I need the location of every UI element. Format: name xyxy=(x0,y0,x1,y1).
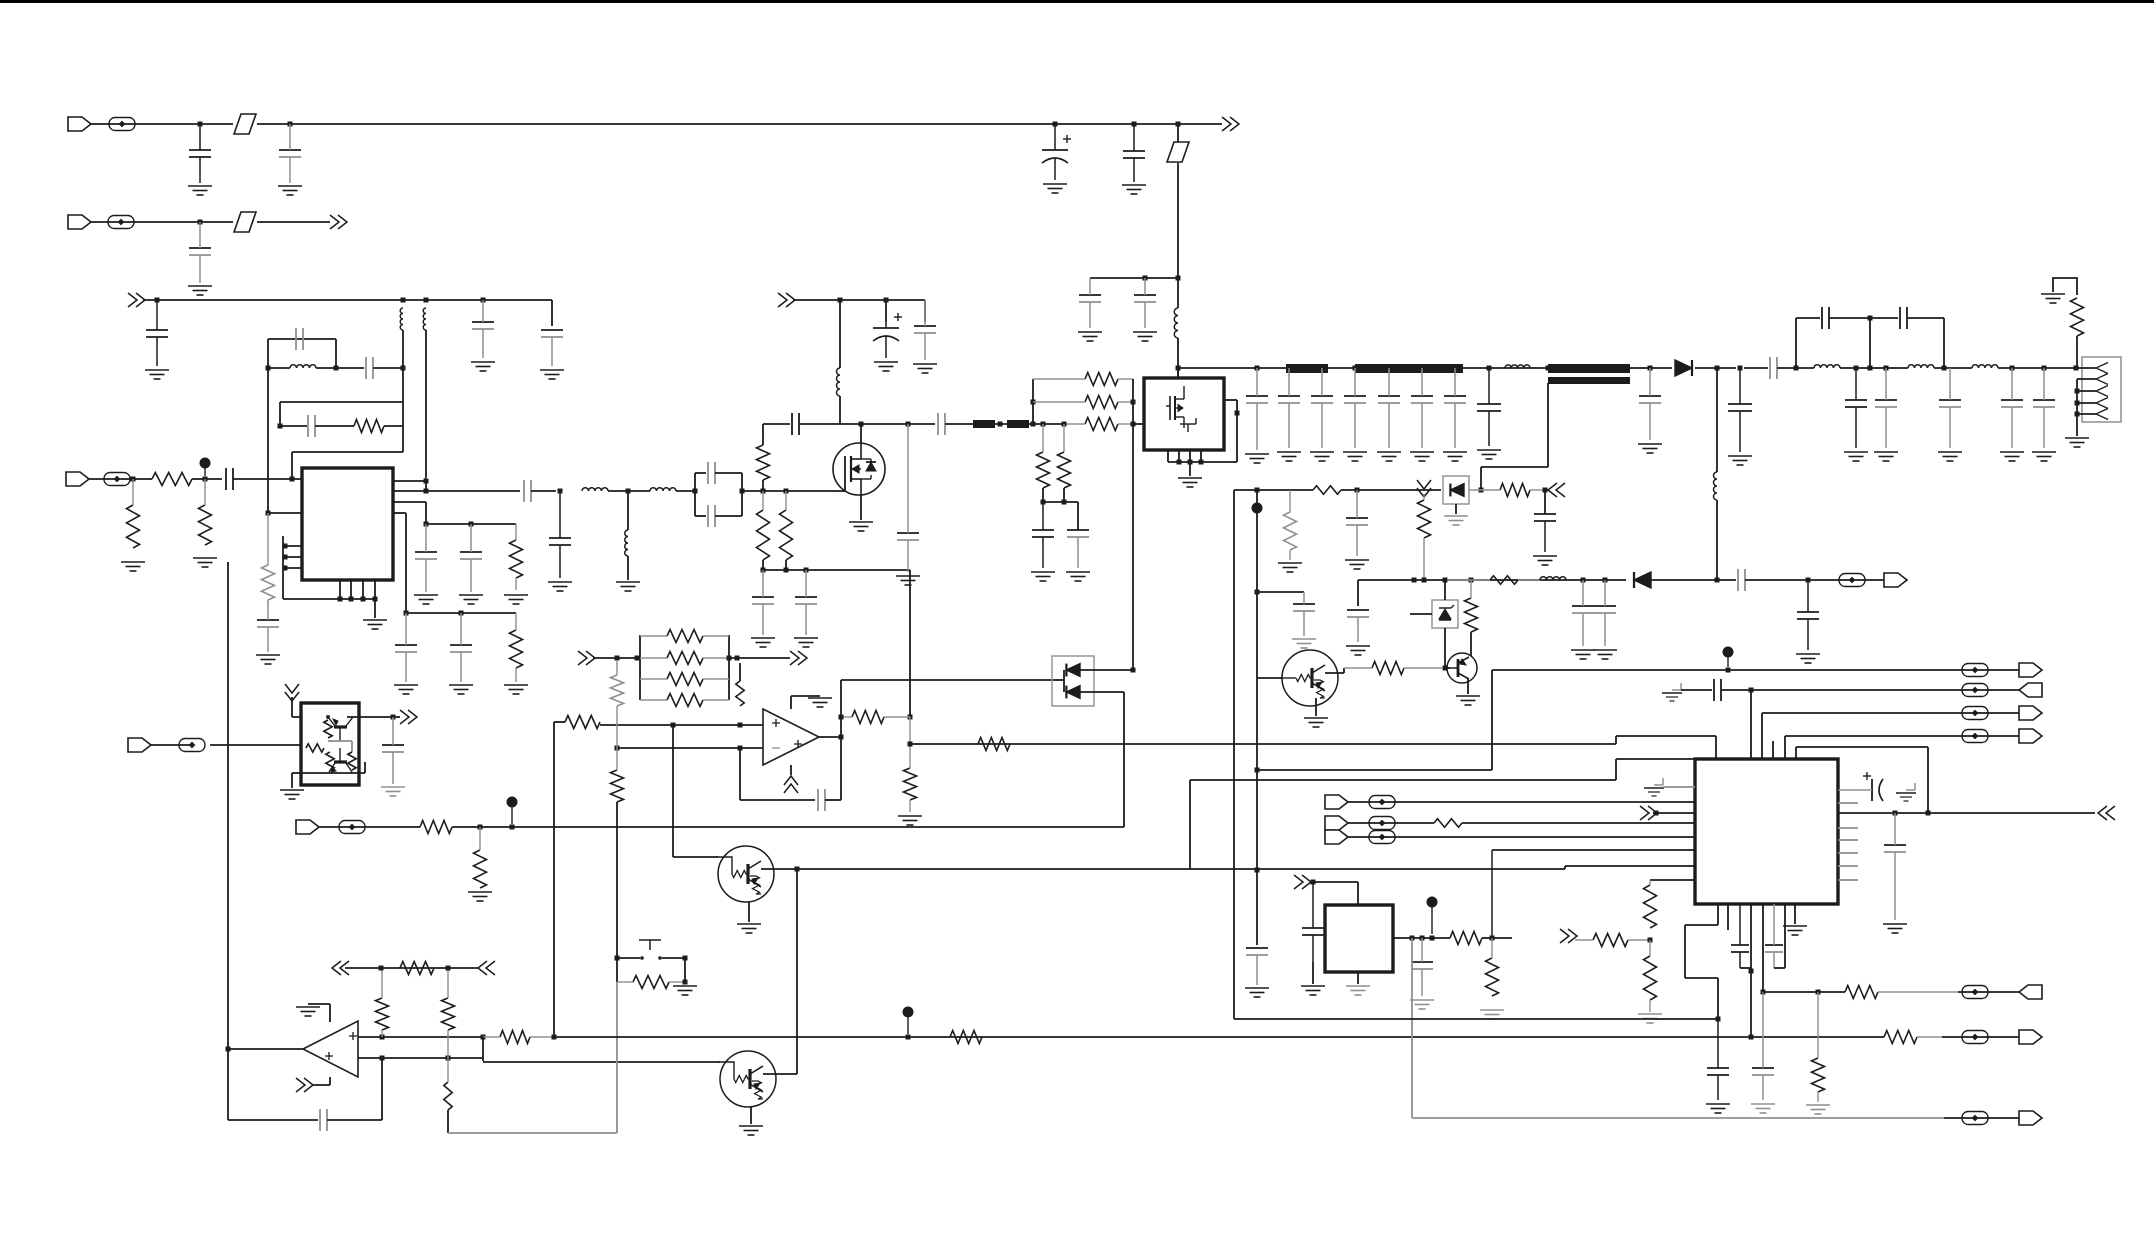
junction xyxy=(998,422,1003,427)
wire u7 out xyxy=(347,716,393,718)
ground xyxy=(1477,450,1501,459)
junction xyxy=(1490,936,1495,941)
capacitor C12 xyxy=(366,357,373,379)
ground xyxy=(2000,452,2024,461)
ground step xyxy=(1662,683,1682,701)
pin stub xyxy=(362,580,364,599)
ground xyxy=(1278,563,1302,572)
transistor inside U2 xyxy=(1166,386,1196,432)
junction xyxy=(391,715,396,720)
capacitor C18 xyxy=(460,524,482,592)
wire xyxy=(1357,882,1359,905)
wire xyxy=(267,339,269,368)
pin out3 xyxy=(393,501,426,503)
resistor R18 xyxy=(1284,490,1297,560)
wire row1118 xyxy=(1412,1117,1944,1119)
wire j8a xyxy=(1348,822,1434,824)
wire box top b xyxy=(715,472,742,474)
wire u7 int2 xyxy=(340,740,352,742)
ground xyxy=(2041,294,2065,303)
wire xyxy=(425,502,427,524)
wire pinb1 xyxy=(1717,904,1719,925)
wire plus row xyxy=(600,724,763,726)
capacitor C25 xyxy=(795,570,817,635)
wire pin813 xyxy=(1653,812,1695,814)
capacitor C33 xyxy=(1246,368,1268,450)
resistor R16 xyxy=(2071,298,2084,336)
wire Q1 collector xyxy=(1325,672,1344,674)
junction xyxy=(1255,868,1260,873)
wire j8b xyxy=(1462,822,1695,824)
capacitor C42 xyxy=(1728,368,1752,452)
plus sign xyxy=(772,719,780,727)
wire top rail right xyxy=(1055,123,1178,125)
wire pin down xyxy=(1715,736,1717,760)
ground xyxy=(1343,452,1367,461)
wire x555 top xyxy=(553,722,555,1037)
capacitor C67 xyxy=(1765,904,1783,968)
ferrite bead FB9b xyxy=(1369,831,1395,844)
wire chev in xyxy=(292,716,326,718)
wire sw l down xyxy=(616,958,618,982)
wire xyxy=(924,300,926,322)
wire x1257 xyxy=(1256,490,1258,662)
ground xyxy=(278,186,302,195)
wire row827 b xyxy=(452,826,1124,828)
pin stub xyxy=(1200,450,1202,462)
wire fb row d xyxy=(1907,317,1944,319)
wire xyxy=(1312,962,1314,984)
transistor Q4 xyxy=(718,1051,776,1107)
wire xyxy=(627,556,629,580)
diode D1 xyxy=(1675,360,1692,376)
junction xyxy=(1884,366,1889,371)
wire top rail xyxy=(290,123,1055,125)
junction xyxy=(1422,578,1427,583)
wire sw right xyxy=(662,957,685,959)
resistor R52 xyxy=(1812,992,1825,1102)
wire sw left xyxy=(617,957,640,959)
ferrite bead FB13 xyxy=(1962,730,1988,743)
wire x1717 down2 xyxy=(1716,500,1718,580)
junction xyxy=(401,298,406,303)
resistor R33 xyxy=(640,673,729,686)
junction xyxy=(380,1056,385,1061)
wire xyxy=(627,491,629,530)
resistor R4 xyxy=(127,479,140,548)
wire d4 left xyxy=(1056,679,1064,681)
connector J9 xyxy=(1325,830,1348,844)
junction xyxy=(1648,938,1653,943)
net arrow in xyxy=(128,293,145,307)
wire gnd stub xyxy=(374,580,376,618)
net arrow out xyxy=(790,651,807,665)
wire pin stub xyxy=(283,567,302,569)
wire U3 pwr h xyxy=(791,695,820,697)
connector J8 xyxy=(1325,816,1348,830)
net blob xyxy=(1427,897,1438,935)
wire gate node xyxy=(763,490,836,492)
wire fb row c xyxy=(1870,317,1898,319)
junction xyxy=(2075,412,2080,417)
connector J12 xyxy=(2019,706,2042,720)
wire xyxy=(425,330,427,478)
junction xyxy=(155,298,160,303)
wire row424 a xyxy=(763,423,790,425)
resistor R13 xyxy=(1064,418,1133,431)
resistor R41 xyxy=(442,970,455,1058)
wire U4 vee xyxy=(329,1077,331,1085)
wire xyxy=(1090,277,1178,279)
wire U4 out xyxy=(228,1048,303,1050)
junction xyxy=(1041,500,1046,505)
wire x1257 lower xyxy=(1256,678,1258,945)
wire pin stub xyxy=(1838,879,1858,881)
junction xyxy=(795,867,800,872)
capacitor C13 xyxy=(308,415,315,437)
wire row737 xyxy=(1616,735,1716,737)
wire to arrow xyxy=(1178,123,1222,125)
IC U6 mcu xyxy=(1695,759,1838,904)
junction sq xyxy=(1412,578,1417,583)
pin dot xyxy=(1199,460,1204,465)
wire box bot a xyxy=(695,515,706,517)
wire Q4 emitter xyxy=(750,1107,752,1124)
wire u7 gnd v xyxy=(291,773,293,788)
capacitor C27 xyxy=(938,413,945,435)
junction xyxy=(1255,768,1260,773)
diode D4b xyxy=(1066,686,1080,699)
capacitor C1 xyxy=(189,124,211,183)
ground SW xyxy=(673,986,697,995)
wire J2 net xyxy=(91,221,200,223)
junction xyxy=(1749,688,1754,693)
thick bead bar xyxy=(973,420,995,428)
junction xyxy=(1716,1017,1721,1022)
wire row3b xyxy=(315,425,354,427)
junction xyxy=(1926,811,1931,816)
wire row992 xyxy=(1763,991,1845,993)
wire row827 a xyxy=(319,826,420,828)
wire minus row xyxy=(358,1057,483,1059)
capacitor C45 xyxy=(1900,307,1907,329)
wire zener stub xyxy=(1410,613,1432,615)
wire ant pin1 xyxy=(2076,367,2096,369)
net chevron xyxy=(296,1078,313,1092)
wire U4 vee h xyxy=(312,1084,330,1086)
wire row869b xyxy=(1190,868,1565,870)
junction xyxy=(1469,578,1474,583)
junction xyxy=(424,479,429,484)
ground xyxy=(1638,1014,1662,1023)
net chevron up xyxy=(784,776,798,793)
wire x268 down xyxy=(267,368,269,513)
diode D2 xyxy=(1634,572,1651,588)
inductor L10 xyxy=(1814,365,1840,368)
wire row570 xyxy=(763,569,910,571)
net arrow xyxy=(1560,929,1577,943)
junction xyxy=(761,489,766,494)
ferrite bead FB2 xyxy=(108,216,134,229)
junction xyxy=(2074,366,2079,371)
capacitor C23 xyxy=(708,505,715,527)
wire bank in xyxy=(593,657,640,659)
IC U1 xyxy=(302,468,393,580)
resistor R17 xyxy=(1313,486,1341,494)
wire row1 xyxy=(268,367,290,369)
ground xyxy=(896,576,920,585)
ground xyxy=(548,582,572,591)
ferrite bead FB14 xyxy=(1962,986,1988,999)
resistor R43 xyxy=(420,821,452,834)
junction xyxy=(1031,422,1036,427)
junction xyxy=(1420,936,1425,941)
ground xyxy=(1844,452,1868,461)
plus sign2 xyxy=(794,740,802,748)
wire u7 row773 xyxy=(301,772,330,774)
ferrite bead FB8 xyxy=(1369,817,1395,830)
wire sec down xyxy=(1547,383,1549,467)
junction xyxy=(1443,578,1448,583)
net arrow out xyxy=(400,710,417,724)
junction xyxy=(1176,276,1181,281)
wire row1037 long xyxy=(554,1036,1884,1038)
inductor L3 xyxy=(423,308,426,330)
wire zener v top xyxy=(1444,580,1446,600)
wire U4 pwr h xyxy=(308,1003,330,1005)
pin right xyxy=(1224,399,1237,401)
inductor L9 xyxy=(1505,365,1530,368)
ground xyxy=(1310,452,1334,461)
net blob xyxy=(507,797,518,825)
junction xyxy=(1062,422,1067,427)
junction xyxy=(693,489,698,494)
wire z4 xyxy=(1717,978,1719,1019)
pin out1 xyxy=(393,480,426,482)
resistor R45 xyxy=(1434,819,1462,827)
wire down to L8 xyxy=(839,300,841,368)
net arrow out xyxy=(1222,117,1239,131)
junction xyxy=(278,424,283,429)
pin dot xyxy=(361,597,366,602)
wire ant pin4 xyxy=(2077,402,2096,404)
ground xyxy=(751,638,775,647)
zener diode Z1 xyxy=(1439,605,1454,620)
wire row0 loop xyxy=(268,338,336,340)
wire jog780 xyxy=(1615,759,1617,780)
wire x673 down xyxy=(672,725,674,857)
capacitor rail C35 xyxy=(1311,368,1333,448)
wire fb down xyxy=(227,1049,229,1120)
net blob xyxy=(903,1007,914,1035)
junction xyxy=(1854,366,1859,371)
junction xyxy=(2075,401,2080,406)
wire main rail a xyxy=(1178,367,1548,369)
wire x617 down xyxy=(616,802,618,958)
junction xyxy=(2075,389,2080,394)
ground U7 xyxy=(280,790,304,799)
wire pin stub xyxy=(283,556,302,558)
wire after C16 xyxy=(531,490,556,492)
wire row770 xyxy=(1257,769,1492,771)
wire fb up xyxy=(381,1058,383,1120)
ferrite bead FB1 xyxy=(109,118,135,131)
capacitor C15 xyxy=(226,468,233,490)
net arrow down xyxy=(1417,480,1431,497)
wire xyxy=(447,1110,449,1133)
junction xyxy=(2042,366,2047,371)
wire Q1 emitter xyxy=(1315,698,1317,716)
capacitor C10 xyxy=(541,330,563,366)
wire x1762 xyxy=(1761,713,1763,760)
wire pin813r xyxy=(1838,812,2095,814)
junction xyxy=(906,1035,911,1040)
wire xyxy=(1650,579,1736,581)
junction xyxy=(1255,590,1260,595)
junction rail xyxy=(1353,366,1358,371)
wire x1133 xyxy=(1132,424,1134,670)
wire x1412 gray xyxy=(1411,938,1413,1118)
resistor R53 xyxy=(324,720,332,738)
wire x1234 xyxy=(1233,490,1235,1019)
wire row1118b xyxy=(1944,1117,2019,1119)
inductor L2 xyxy=(400,308,403,330)
resistor R56 xyxy=(348,752,356,770)
connector J9x xyxy=(2019,1111,2042,1125)
capacitor C56 xyxy=(1738,569,1745,591)
junction xyxy=(1581,578,1586,583)
op-amp U3 xyxy=(763,709,819,765)
junction U3 out xyxy=(839,735,844,740)
wire rail to diode xyxy=(1630,367,1672,369)
junction xyxy=(552,1035,557,1040)
capacitor C43 xyxy=(1770,357,1777,379)
wire jog xyxy=(482,1037,484,1061)
IC U5 xyxy=(1325,905,1393,972)
pin stub xyxy=(1189,450,1191,462)
inductor L4 xyxy=(290,365,316,368)
wire xyxy=(335,339,337,368)
junction xyxy=(1603,578,1608,583)
junction rail xyxy=(1287,366,1292,371)
wire xyxy=(1236,413,1238,462)
resistor R11 xyxy=(1033,373,1133,386)
wire xyxy=(739,663,741,681)
inductor L13 xyxy=(1714,472,1718,500)
wire x841 xyxy=(840,680,842,737)
junction xyxy=(906,422,911,427)
wire j7 xyxy=(1348,801,1695,803)
wire U5 gnd xyxy=(1357,972,1359,984)
ground xyxy=(471,362,495,371)
resistor R24 xyxy=(904,717,917,812)
pin dot xyxy=(283,544,288,549)
capacitor C24 xyxy=(752,570,774,635)
junction xyxy=(1131,422,1136,427)
resistor R9 xyxy=(757,491,770,560)
junction sq xyxy=(683,956,688,961)
capacitor C65 xyxy=(1707,1019,1729,1100)
net blob xyxy=(1252,503,1263,514)
switch contact xyxy=(640,956,662,960)
thick inductor bar xyxy=(1286,364,1328,373)
ground xyxy=(1345,560,1369,569)
ground xyxy=(1533,556,1557,565)
junction xyxy=(424,298,429,303)
wire row938 xyxy=(1492,937,1512,939)
wire bank right xyxy=(728,635,730,700)
resistor R51 xyxy=(1845,986,1958,999)
wire bracket h xyxy=(283,598,375,600)
wire row690a xyxy=(1681,689,1712,691)
pin dot q5 xyxy=(326,715,330,719)
resistor R42 xyxy=(400,962,434,975)
ground xyxy=(1031,572,1055,581)
wire pinb4 xyxy=(1784,904,1786,968)
capacitor C59 xyxy=(320,1109,327,1131)
wire x1751 xyxy=(1750,690,1752,760)
capacitor C6 xyxy=(1079,278,1101,328)
net arrow xyxy=(1640,806,1657,820)
wire row736 xyxy=(1785,735,1944,737)
ground xyxy=(1751,1104,1775,1113)
wire row3c xyxy=(384,425,403,427)
wire xyxy=(393,716,400,718)
junction xyxy=(203,477,208,482)
wire xyxy=(1063,488,1065,502)
wire u7 int1 xyxy=(328,740,340,742)
wire xyxy=(1777,367,1814,369)
wire F3 up xyxy=(1177,124,1179,142)
junction xyxy=(1654,811,1659,816)
junction sq xyxy=(738,723,743,728)
junction xyxy=(1942,366,1947,371)
junction xyxy=(1868,316,1873,321)
junction xyxy=(1816,990,1821,995)
junction xyxy=(735,656,740,661)
junction xyxy=(1546,366,1551,371)
connector J6 xyxy=(296,820,319,834)
resistor R25 xyxy=(841,711,910,724)
wire row2 xyxy=(280,401,403,403)
connector J2 xyxy=(68,215,91,229)
transistor Q6 xyxy=(329,748,352,772)
capacitor C46 xyxy=(1845,368,1867,448)
wire rc bank2 xyxy=(406,612,516,614)
resistor R34 xyxy=(640,694,729,707)
inductor L5 xyxy=(582,488,608,491)
junction xyxy=(784,489,789,494)
wire bank left xyxy=(639,635,641,700)
junction xyxy=(1131,668,1136,673)
wire xyxy=(257,221,330,223)
wire Q2 base xyxy=(1445,667,1450,669)
inductor L1 xyxy=(1174,308,1178,338)
wire cap tap xyxy=(1257,591,1304,593)
wire d4a out xyxy=(1080,669,1133,671)
junction xyxy=(446,1056,451,1061)
wire xyxy=(1310,881,1358,883)
plus sign xyxy=(325,1052,333,1060)
wire Q3 emitter xyxy=(748,902,750,922)
ferrite bead FB12 xyxy=(1962,707,1988,720)
junction xyxy=(478,825,483,830)
capacitor C60 xyxy=(1302,882,1324,962)
wire 5v rail xyxy=(793,299,925,301)
wire xyxy=(676,490,695,492)
junction xyxy=(1487,366,1492,371)
junction xyxy=(1738,366,1743,371)
